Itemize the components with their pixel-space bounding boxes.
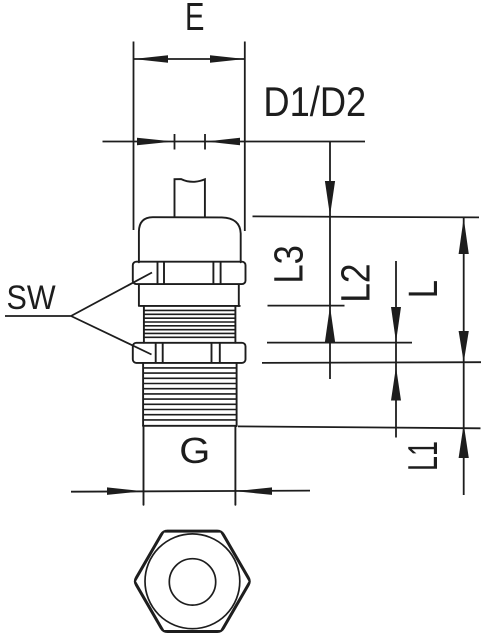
svg-text:L1: L1 (400, 441, 446, 471)
svg-text:L3: L3 (267, 245, 312, 283)
svg-text:D1/D2: D1/D2 (263, 80, 366, 126)
svg-text:E: E (185, 0, 204, 39)
svg-text:SW: SW (7, 278, 56, 316)
svg-text:G: G (179, 431, 210, 472)
svg-text:L: L (400, 280, 445, 298)
svg-text:L2: L2 (333, 263, 379, 302)
